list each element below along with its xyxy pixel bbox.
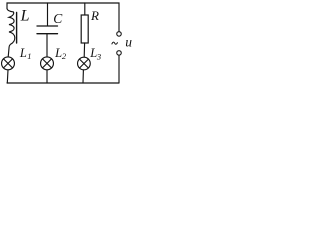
lamp L1 circle	[2, 57, 15, 70]
iron core bar	[16, 13, 18, 44]
lamp L1 cross	[4, 59, 13, 68]
svg-text:1: 1	[27, 51, 31, 61]
wire below L3	[82, 70, 84, 83]
wire right bus lower	[118, 55, 120, 83]
wire capacitor branch upper	[47, 3, 49, 25]
wire resistor to lamp L3	[83, 43, 85, 57]
resistor R body	[81, 15, 88, 43]
lamp L3 circle	[78, 57, 91, 70]
capacitor C bottom plate	[37, 33, 58, 35]
wire bottom bus	[7, 82, 119, 84]
wire below L1	[6, 70, 9, 83]
lamp L2 circle	[41, 57, 54, 70]
lamp L3 cross	[80, 59, 89, 68]
terminal lower	[117, 51, 122, 56]
svg-text:L: L	[19, 46, 27, 60]
lamp L2 cross	[43, 59, 52, 68]
svg-text:3: 3	[96, 51, 101, 61]
svg-text:L: L	[20, 8, 30, 25]
wire capacitor to lamp L2	[46, 34, 48, 57]
svg-text:u: u	[125, 34, 132, 49]
wire top bus with left and right corners	[7, 3, 119, 32]
capacitor C top plate	[37, 25, 58, 27]
terminal upper	[117, 32, 122, 37]
tilde of source label	[112, 42, 118, 44]
svg-text:2: 2	[62, 51, 67, 61]
svg-text:R: R	[90, 8, 99, 23]
svg-text:L: L	[54, 46, 62, 60]
inductor L (coil with exit curl)	[7, 9, 15, 57]
wire below L2	[46, 70, 48, 83]
wire resistor branch upper	[84, 3, 86, 15]
svg-text:C: C	[53, 11, 63, 26]
